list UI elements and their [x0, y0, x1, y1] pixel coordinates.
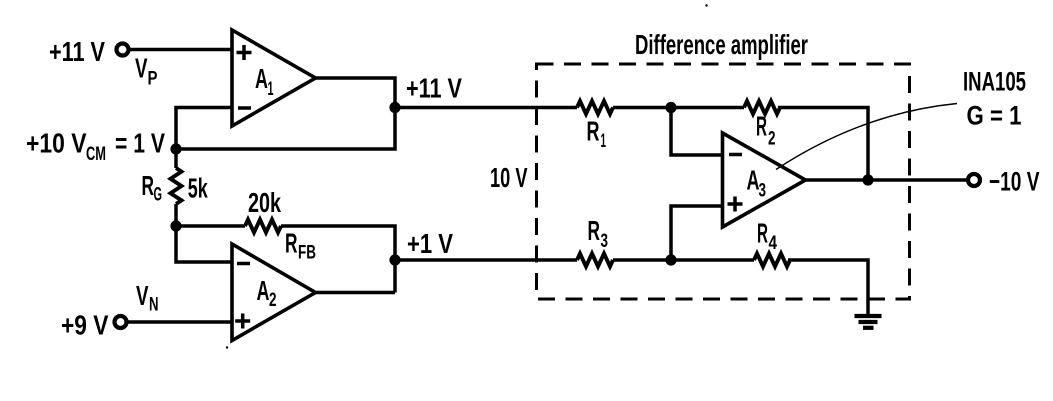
svg-text:V: V	[136, 280, 149, 311]
svg-text:R: R	[587, 115, 600, 146]
svg-text:2: 2	[768, 129, 776, 150]
svg-text:20k: 20k	[248, 187, 281, 218]
svg-text:+11 V: +11 V	[406, 73, 462, 104]
svg-text:Difference amplifier: Difference amplifier	[635, 29, 808, 60]
svg-text:3: 3	[759, 180, 767, 201]
svg-text:+1 V: +1 V	[407, 228, 453, 259]
svg-text:P: P	[148, 69, 158, 90]
svg-text:N: N	[149, 295, 159, 316]
svg-text:−10 V: −10 V	[989, 167, 1040, 197]
svg-text:+11 V: +11 V	[49, 36, 105, 67]
svg-text:CM: CM	[86, 144, 106, 165]
svg-text:A: A	[255, 63, 268, 94]
svg-text:FB: FB	[298, 243, 316, 264]
svg-text:INA105: INA105	[963, 67, 1026, 97]
svg-text:R: R	[142, 170, 155, 201]
svg-text:R: R	[756, 110, 767, 141]
svg-text:G = 1: G = 1	[967, 101, 1022, 131]
svg-text:2: 2	[269, 290, 277, 311]
svg-text:R: R	[588, 215, 601, 246]
svg-text:1: 1	[601, 131, 607, 152]
svg-text:10 V: 10 V	[490, 162, 528, 193]
svg-text:1: 1	[268, 79, 274, 100]
svg-text:5k: 5k	[188, 173, 208, 204]
svg-text:G: G	[154, 184, 163, 205]
svg-text:R: R	[285, 228, 298, 259]
svg-text:A: A	[257, 275, 270, 306]
svg-text:+10 V: +10 V	[26, 128, 87, 159]
svg-text:3: 3	[601, 231, 609, 252]
svg-text:R: R	[757, 218, 768, 249]
svg-text:V: V	[135, 53, 148, 84]
svg-text:4: 4	[769, 233, 778, 254]
svg-text:+9 V: +9 V	[61, 310, 109, 341]
svg-text:= 1 V: = 1 V	[115, 128, 165, 159]
